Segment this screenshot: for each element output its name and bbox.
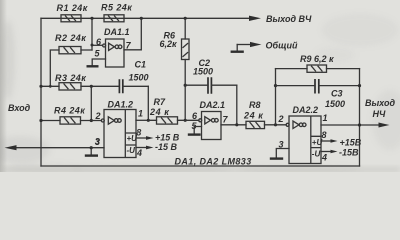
svg-text:+15В: +15В [340,138,362,148]
svg-text:R2 24к: R2 24к [55,33,86,43]
svg-text:-U: -U [312,150,321,159]
node top arrow Выход ВЧ [249,16,261,21]
svg-text:DA1.1: DA1.1 [104,27,130,37]
wire R4 net [41,120,102,122]
wire DA1.1 pin5 to ground [92,59,105,65]
svg-text:R7: R7 [154,97,166,107]
wire DA2.2 +U pin8 [321,140,331,142]
ground DA1.1 [87,65,99,67]
wire top rail [41,17,250,19]
resistor R3 [55,73,86,90]
wire DA2.2 pin3 ground [276,149,289,158]
wire R6 vertical [184,18,186,120]
svg-text:1500: 1500 [129,73,149,83]
wire R7 net [148,119,199,121]
wire right vertical [359,69,361,166]
svg-text:4: 4 [321,153,327,163]
ground DA2.1 [188,133,201,135]
svg-text:R9 6,2 к: R9 6,2 к [300,54,334,64]
capacitor C3 [276,79,360,109]
wire left vertical [40,18,42,166]
wire R9/C3 left vertical [275,69,277,125]
svg-text:2: 2 [278,114,284,124]
svg-text:1500: 1500 [193,67,213,77]
wire mid vertical x91 [90,86,92,120]
wire C2 right vertical to DA2.1 out [236,85,238,125]
wire DA1.2 -U pin4 [136,147,147,149]
ground input common [85,154,98,156]
svg-text:R8: R8 [249,100,261,110]
resistor R2 [55,33,86,54]
svg-text:6,2к: 6,2к [160,39,178,49]
wire DA1.1 out pin7 [124,18,141,50]
svg-text:+15 В: +15 В [155,133,180,143]
svg-text:DA2.1: DA2.1 [200,100,226,110]
wire DA1.2 +U pin8 [136,137,147,139]
wire bottom rail [41,165,360,167]
wire pin6 DA1.1 [92,44,103,46]
wire R8 to DA2.2 pin2 [265,124,287,126]
resistor R9 [300,54,334,72]
svg-text:24 к: 24 к [243,111,263,121]
svg-text:C3: C3 [331,89,343,99]
svg-text:R3 24к: R3 24к [55,73,86,83]
svg-text:Вход: Вход [8,103,31,113]
svg-text:DA1.2: DA1.2 [108,100,134,110]
wire DA2.2 -U pin4 [321,151,331,153]
wire DA2.1 out [221,124,246,126]
wire DA2.1 pin5 ground [194,127,201,134]
svg-text:8: 8 [322,130,327,140]
resistor R7 [149,97,178,124]
op-amp DA2.1 [192,100,229,140]
svg-text:-U: -U [127,146,136,155]
svg-text:R4 24к: R4 24к [54,106,85,116]
resistor R1 [57,3,88,22]
wire DA1.2 pin3 / input common [16,147,104,149]
svg-text:DA1, DA2 LM833: DA1, DA2 LM833 [175,157,252,167]
svg-text:24 к: 24 к [149,107,169,117]
node junction top x185 [184,17,187,20]
svg-text:DA2.2: DA2.2 [293,105,319,115]
ground Общий terminal [237,44,251,46]
svg-text:2: 2 [95,111,101,121]
resistor R4 [54,106,85,125]
ground DA2.2 [270,157,283,159]
svg-text:R5 24к: R5 24к [101,3,132,13]
wire R9 run [276,68,360,70]
svg-text:Общий: Общий [266,41,298,51]
op-amp DA1.2 [95,100,144,158]
wire DA2.2 out [321,124,378,126]
resistor R6 [160,31,190,60]
svg-text:НЧ: НЧ [373,109,386,119]
node junction top x92 [90,17,93,20]
svg-text:C1: C1 [135,60,147,70]
svg-text:-15 В: -15 В [155,142,178,152]
op-amp DA1.1 [95,27,132,67]
svg-text:R1 24к: R1 24к [57,3,88,13]
svg-text:1: 1 [138,109,143,119]
paper background [0,0,400,172]
node junction top x141 [140,17,143,20]
resistor R8 [243,100,265,129]
wire C1 to DA1.2 out vertical [147,86,149,120]
wire DA1.2 out [136,119,148,121]
op-amp DA2.2 [278,105,328,164]
resistor R5 [101,3,132,22]
capacitor C2 [185,58,237,94]
svg-text:3: 3 [95,137,100,147]
svg-text:8: 8 [136,128,141,138]
svg-text:Выход ВЧ: Выход ВЧ [266,14,312,24]
svg-text:1: 1 [323,113,328,123]
svg-text:4: 4 [136,148,142,158]
wire pin6 vertical x92 [91,18,93,50]
svg-text:1500: 1500 [325,99,345,109]
wire R3 net / C1 run [41,85,119,87]
wire R2 leads [50,50,92,86]
svg-text:-15В: -15В [339,148,359,158]
svg-text:Выход: Выход [365,98,395,108]
capacitor C1 [119,60,148,94]
